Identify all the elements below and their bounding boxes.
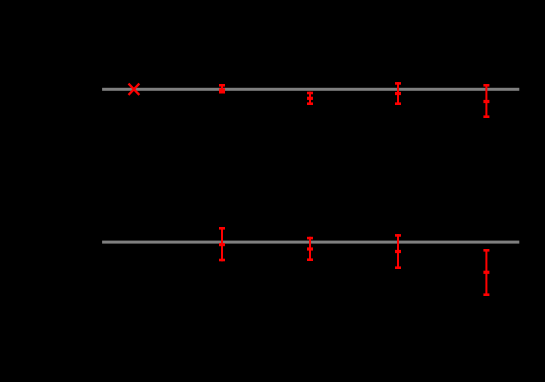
X marker M1 (top panel, x=134) (129, 84, 140, 95)
error bar M4 (top panel, x=398) (395, 82, 401, 105)
error bar B2 (bottom panel, x=310) (307, 237, 313, 261)
error bar M2 (top panel, x=222) (219, 84, 225, 94)
error bar B4 (bottom panel, x=486.4) (483, 249, 489, 296)
error bar M5 (top panel, x=486.4) (483, 84, 489, 118)
error bar B1 (bottom panel, x=222) (219, 227, 225, 261)
error bar M3 (top panel, x=310) (307, 92, 313, 105)
bottom reference line (panel 2) (102, 241, 519, 244)
top reference line (panel 1) (102, 88, 519, 91)
error bar B3 (bottom panel, x=398) (395, 234, 401, 269)
